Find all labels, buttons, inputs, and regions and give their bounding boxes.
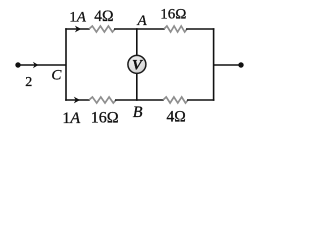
wire: left vertical branch join <box>65 28 67 101</box>
wire: entry from left terminal to node C <box>18 64 66 66</box>
svg-text:1A: 1A <box>62 110 80 127</box>
svg-text:C: C <box>51 67 62 83</box>
svg-text:1A: 1A <box>69 9 87 25</box>
current arrow on bottom branch <box>74 97 80 104</box>
svg-text:4Ω: 4Ω <box>166 109 185 126</box>
wire: voltmeter branch from node A <box>136 28 138 56</box>
svg-text:B: B <box>133 104 143 121</box>
right terminal dot <box>238 62 243 67</box>
svg-text:16Ω: 16Ω <box>91 110 119 127</box>
resistor 4Ω (top left) <box>89 26 115 32</box>
resistor 16Ω (top right) <box>164 26 187 32</box>
resistor 16Ω (bottom left) <box>89 97 116 103</box>
svg-text:16Ω: 16Ω <box>160 7 186 23</box>
svg-text:A: A <box>137 13 148 29</box>
wire: exit to right terminal <box>214 64 241 66</box>
wire: voltmeter branch to node B <box>136 73 138 101</box>
svg-text:2: 2 <box>25 75 32 90</box>
wire: top rail left segment <box>65 28 90 30</box>
current arrow on entry wire <box>33 62 39 69</box>
resistor 4Ω (bottom right) <box>163 97 188 103</box>
wire: bottom rail left segment <box>65 99 90 101</box>
left terminal dot <box>15 62 20 67</box>
wire: bottom rail middle segment through node B <box>115 99 164 101</box>
wire: bottom rail right segment <box>187 99 214 101</box>
wire: top rail middle segment through node A <box>114 28 165 30</box>
current arrow on top branch <box>75 26 81 33</box>
voltmeter V (circle body) <box>128 55 146 73</box>
svg-text:4Ω: 4Ω <box>94 8 113 25</box>
wire: right vertical branch join <box>213 28 215 101</box>
wire: top rail right segment <box>186 28 214 30</box>
